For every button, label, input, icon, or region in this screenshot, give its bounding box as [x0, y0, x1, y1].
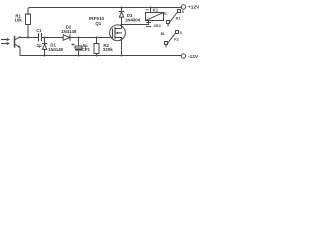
svg-text:Q1: Q1 — [95, 21, 101, 26]
capacitor CP1 polarized — [72, 38, 82, 56]
svg-text:K1: K1 — [174, 38, 179, 42]
wire drain to relay — [122, 24, 149, 26]
node junction drain/D3 — [121, 24, 123, 26]
node junction R2 — [96, 37, 98, 39]
svg-text:K1: K1 — [176, 17, 181, 21]
svg-text:+12V: +12V — [188, 5, 200, 11]
relay coil K1 — [146, 8, 164, 21]
light arrows into T1 — [2, 38, 11, 45]
node junction D3 top — [121, 7, 123, 9]
resistor R1 — [26, 14, 31, 25]
switch contact K1 b — [165, 31, 179, 48]
switch contact K1 a — [167, 10, 181, 27]
node junction source bottom — [121, 55, 123, 57]
wire D2 to gate — [70, 37, 112, 39]
svg-text:10k: 10k — [14, 18, 22, 23]
node junction R2 bottom — [96, 55, 98, 57]
svg-text:5: 5 — [180, 31, 182, 35]
wire R1 bottom stub — [27, 25, 29, 38]
capacitor C1 — [39, 34, 42, 41]
svg-text:EL: EL — [161, 32, 167, 36]
svg-text:1N4148: 1N4148 — [61, 29, 77, 34]
wire main node A — [20, 37, 38, 39]
relay pin marks — [147, 23, 151, 27]
svg-text:5µ: 5µ — [83, 43, 88, 48]
wire R1 top stub — [28, 8, 30, 15]
node junction D1 — [44, 37, 46, 39]
svg-text:351: 351 — [154, 23, 162, 28]
node junction R1/main — [27, 37, 29, 39]
node junction CP1 — [78, 37, 80, 39]
terminal -12V — [181, 54, 185, 58]
svg-text:5: 5 — [182, 10, 184, 14]
svg-text:K1: K1 — [153, 7, 159, 12]
terminal +12V — [181, 5, 185, 9]
svg-text:1N4004: 1N4004 — [125, 17, 141, 22]
node junction D1 bottom — [44, 55, 46, 57]
transistor T1 phototransistor — [15, 37, 21, 56]
diode D2 — [63, 35, 70, 41]
diode D3 — [119, 8, 123, 25]
svg-text:1µ: 1µ — [37, 43, 42, 48]
transistor Q1 internals — [113, 25, 122, 56]
wire top rail — [30, 7, 181, 9]
node junction relay top — [150, 7, 152, 9]
svg-text:EL: EL — [163, 11, 169, 15]
node junction CP1 bottom — [78, 55, 80, 57]
wire C1 to D2 — [42, 37, 63, 39]
wire bottom rail — [20, 55, 181, 57]
svg-text:1N4148: 1N4148 — [48, 47, 63, 52]
svg-text:330k: 330k — [103, 47, 114, 52]
resistor R2 — [94, 38, 99, 56]
diode D1 — [42, 38, 46, 56]
wire relay bottom stub — [148, 21, 150, 25]
transistor Q1 MOSFET body — [110, 25, 126, 41]
svg-text:-12V: -12V — [188, 54, 199, 60]
svg-text:C1: C1 — [36, 28, 42, 33]
